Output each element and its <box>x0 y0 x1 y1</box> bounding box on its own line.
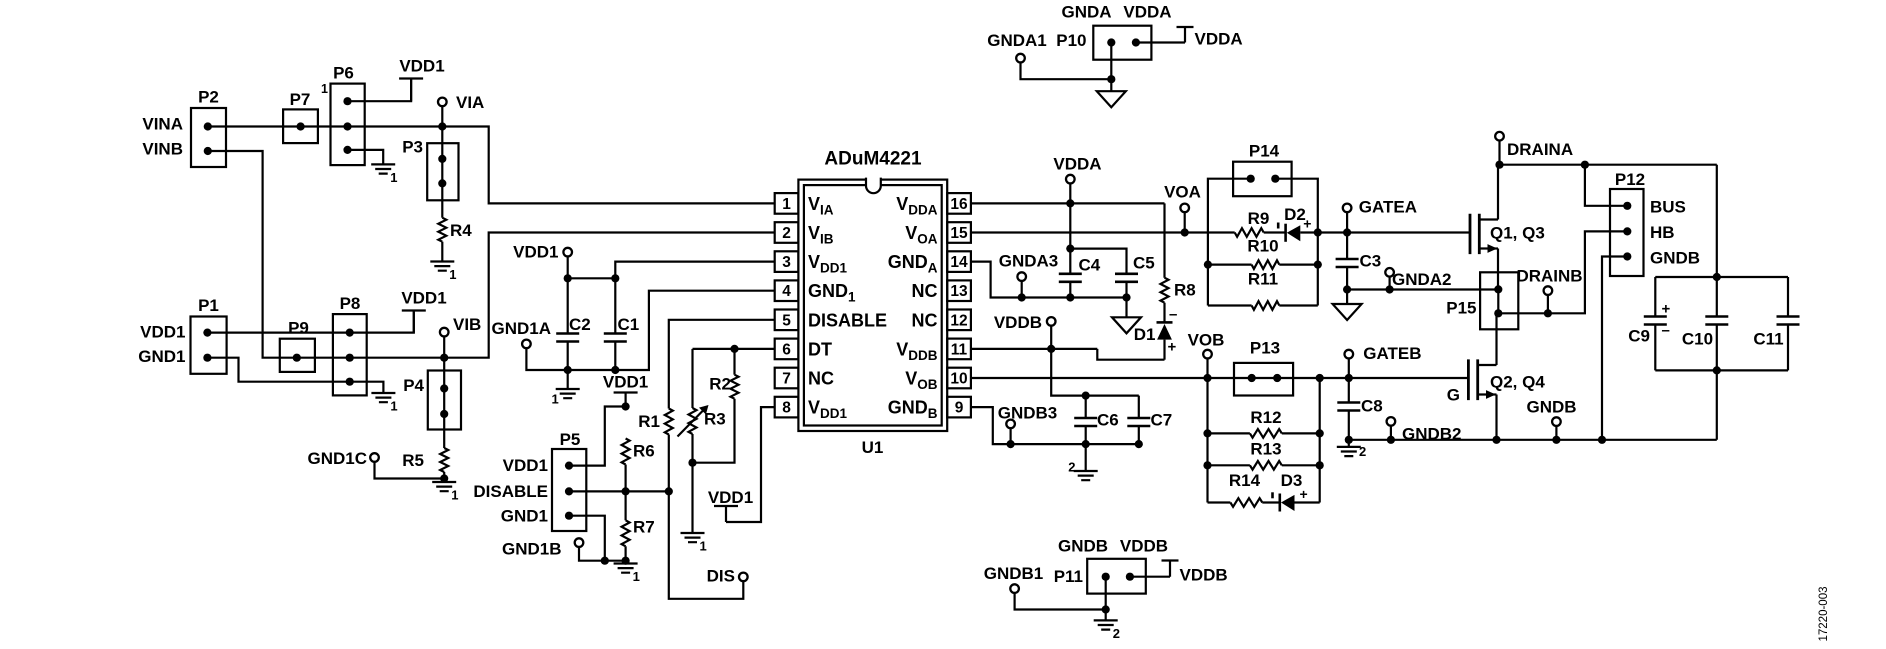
svg-text:1: 1 <box>782 196 791 213</box>
wire R1 to DISABLE junction <box>668 435 670 492</box>
svg-text:C2: C2 <box>569 315 591 334</box>
svg-text:1: 1 <box>633 569 640 584</box>
wire VIA to P3 <box>441 127 443 159</box>
wire P14 left leg <box>1208 179 1251 306</box>
P14 pin 1 <box>1247 175 1255 183</box>
ground 2 below C6 <box>1074 471 1098 480</box>
node GNDA3 terminal <box>1017 272 1026 281</box>
wire GND1 from P1 to P8 pin3 <box>207 358 349 382</box>
P13 pin 2 <box>1273 374 1281 382</box>
node GNDB2 terminal <box>1387 417 1396 426</box>
power VDDA at P10 <box>1136 27 1194 43</box>
header P15 <box>1480 272 1518 329</box>
svg-text:VOA: VOA <box>1164 183 1201 202</box>
wire VDDB terminal stub <box>1050 326 1052 349</box>
svg-text:5: 5 <box>782 312 791 329</box>
svg-text:GNDA2: GNDA2 <box>1392 270 1452 289</box>
P10 pin 1 <box>1107 38 1115 46</box>
header P10 <box>1093 26 1151 60</box>
svg-text:VDDB: VDDB <box>1180 566 1228 585</box>
ground 1 right of P8 <box>371 393 395 402</box>
junction R12 left <box>1203 429 1211 437</box>
svg-text:VDDA: VDDA <box>1123 3 1171 22</box>
junction C6 top <box>1082 392 1090 400</box>
svg-text:1: 1 <box>321 82 328 96</box>
wire P11 ground stub <box>1105 610 1107 621</box>
wire C2 ground stub <box>567 370 569 389</box>
capacitor C3 plates <box>1336 259 1359 267</box>
capacitor C4 plates <box>1059 274 1082 282</box>
header P3 <box>427 143 458 200</box>
P6 pin 3 <box>343 146 351 154</box>
junction VIB on net <box>440 354 448 362</box>
svg-text:16: 16 <box>950 196 968 213</box>
wire R5 to ground <box>443 472 445 479</box>
svg-text:VDD1: VDD1 <box>513 243 558 262</box>
U1 pin 12 box <box>947 310 971 331</box>
junction cap bank bottom <box>1713 366 1721 374</box>
resistor R7 <box>622 520 630 546</box>
svg-text:R5: R5 <box>402 451 424 470</box>
wire VDDB net from U1 pin 11 <box>971 348 1097 350</box>
node VIA terminal <box>438 98 447 107</box>
svg-text:C6: C6 <box>1097 411 1119 430</box>
wire VDD1 to P5 pin1 <box>569 407 626 466</box>
svg-text:Q1, Q3: Q1, Q3 <box>1490 224 1545 243</box>
potentiometer R3 body <box>689 408 697 434</box>
svg-text:C8: C8 <box>1361 397 1383 416</box>
svg-text:P15: P15 <box>1446 299 1476 318</box>
capacitor C9 plates <box>1644 317 1667 325</box>
svg-text:NC: NC <box>912 310 938 330</box>
svg-text:P3: P3 <box>402 138 423 157</box>
resistor R4 <box>438 218 446 242</box>
P5 pin 1 <box>565 462 573 470</box>
wire GNDA2 stub <box>1388 277 1390 290</box>
header P2 <box>191 108 226 167</box>
junction R2/R3 bottom <box>688 459 696 467</box>
wire ground row to R7 bottom <box>605 560 626 562</box>
wire VDD1 rail to U1 pin 3 <box>568 262 775 279</box>
capacitor C7 <box>1138 396 1140 445</box>
svg-text:P10: P10 <box>1056 31 1086 50</box>
svg-text:C11: C11 <box>1753 330 1783 349</box>
svg-text:–: – <box>1662 322 1670 339</box>
P6 pin 2 <box>343 122 351 130</box>
junction BUS on rail <box>1581 161 1589 169</box>
wire VDDB to C6/C7 rail <box>1051 349 1139 396</box>
P15 pin 2 <box>1494 309 1502 317</box>
junction C3 bottom <box>1343 285 1351 293</box>
svg-text:P2: P2 <box>198 88 219 107</box>
svg-text:C10: C10 <box>1682 330 1713 349</box>
svg-text:P12: P12 <box>1615 170 1645 189</box>
svg-text:14: 14 <box>950 254 968 271</box>
svg-text:P8: P8 <box>340 294 361 313</box>
svg-text:VDDA: VDDA <box>1195 30 1243 49</box>
junction GNDA1 row <box>1107 75 1115 83</box>
svg-text:NC: NC <box>912 281 938 301</box>
wire P3 internal <box>441 159 443 184</box>
U1 pin 1 box <box>775 193 799 214</box>
svg-text:R2: R2 <box>709 375 731 394</box>
wire VDDA to C4 <box>1069 203 1071 248</box>
junction GNDB terminal <box>1552 436 1560 444</box>
resistor R9 <box>1235 228 1264 237</box>
svg-text:4: 4 <box>782 283 791 300</box>
resistor R1 <box>665 409 673 435</box>
wire U1 pin5 to R1 <box>669 320 775 409</box>
P1 pin 1 <box>203 329 211 337</box>
svg-text:+: + <box>1300 486 1308 502</box>
wire VIB stub <box>443 336 445 357</box>
P12 pin 1 BUS <box>1623 202 1631 210</box>
resistor R10 <box>1252 260 1280 269</box>
svg-text:11: 11 <box>951 341 968 358</box>
capacitor C2 <box>567 278 569 370</box>
svg-text:1: 1 <box>449 267 456 282</box>
svg-text:GND1: GND1 <box>501 507 548 526</box>
svg-text:VDD1: VDD1 <box>401 289 446 308</box>
junction DT at R2 <box>730 345 738 353</box>
wire U1 pin14 to GNDA rail <box>971 262 1127 298</box>
svg-text:DIS: DIS <box>707 567 735 586</box>
junction VOB <box>1203 374 1211 382</box>
node GNDB1 terminal <box>1010 584 1019 593</box>
wire VDDA net from U1 pin 16 <box>971 202 1165 204</box>
svg-text:1: 1 <box>551 392 558 407</box>
wire R8 to D1 <box>1163 303 1165 323</box>
svg-text:P6: P6 <box>333 64 354 83</box>
svg-text:2: 2 <box>1068 460 1075 475</box>
capacitor C11 plates <box>1777 317 1800 325</box>
wire C3 to analog ground <box>1346 290 1348 305</box>
svg-text:R9: R9 <box>1248 209 1270 228</box>
svg-text:P7: P7 <box>290 90 311 109</box>
header P9 <box>280 339 315 372</box>
wire cap bank bottom rail <box>1655 369 1788 371</box>
wire GATEA stub <box>1346 212 1348 232</box>
header P11 <box>1087 559 1146 594</box>
svg-text:VDD1: VDD1 <box>503 456 548 475</box>
wire DRAINA bus rail <box>1500 164 1717 166</box>
node VDDA terminal <box>1066 175 1075 184</box>
svg-text:BUS: BUS <box>1650 198 1686 217</box>
svg-text:R12: R12 <box>1250 408 1281 427</box>
svg-text:GNDB3: GNDB3 <box>998 404 1058 423</box>
svg-text:R13: R13 <box>1250 440 1281 459</box>
wire B left leg <box>1206 378 1208 503</box>
svg-text:GNDB: GNDB <box>1650 249 1700 268</box>
svg-text:P9: P9 <box>288 319 309 338</box>
P3 pin 1 <box>438 155 446 163</box>
junction GNDB2 <box>1387 436 1395 444</box>
junction R12 right <box>1316 429 1324 437</box>
wire B right leg <box>1319 378 1321 503</box>
svg-text:R4: R4 <box>450 221 472 240</box>
wire P15 to HB net <box>1498 231 1627 313</box>
wire GNDB row to cap bank <box>1349 439 1717 441</box>
junction ground rail at C2 <box>564 366 572 374</box>
capacitor C7 plates <box>1127 418 1150 426</box>
ground 1 below R4 <box>430 262 454 271</box>
wire P4 to R5 <box>443 414 445 448</box>
junction GNDB3 on rail <box>1007 440 1015 448</box>
op-amp U1 ADuM4221 body <box>798 180 947 431</box>
capacitor C8 <box>1348 378 1350 440</box>
wire DRAINB stub <box>1547 295 1549 313</box>
svg-text:G: G <box>1447 386 1460 405</box>
wire R10 row <box>1208 264 1318 266</box>
capacitor C6 plates <box>1074 418 1097 426</box>
header P8 <box>333 314 367 395</box>
P5 pin 2 <box>565 487 573 495</box>
junction P12 GNDB on row <box>1598 436 1606 444</box>
svg-text:DRAINA: DRAINA <box>1507 140 1573 159</box>
wire P3 to R4 <box>441 183 443 217</box>
resistor R6 <box>622 439 630 465</box>
svg-text:VIA: VIA <box>456 93 484 112</box>
junction right leg top <box>1316 374 1324 382</box>
P10 pin 2 <box>1132 38 1140 46</box>
U1 pin 2 box <box>775 222 799 243</box>
svg-text:DT: DT <box>808 339 832 359</box>
junction VDD1 rail at C1 <box>611 274 619 282</box>
wire Q1 drain <box>1497 165 1499 220</box>
wire R7 to ground row <box>624 546 626 560</box>
ground 2 below C8 <box>1337 447 1361 456</box>
node GND1A terminal <box>522 340 531 349</box>
wire P11 pin1 leg <box>1105 577 1107 610</box>
ground 1 at P6 <box>371 164 395 173</box>
wire R12 row <box>1208 432 1320 434</box>
svg-text:GNDA3: GNDA3 <box>999 252 1059 271</box>
wire R4 to ground <box>441 242 443 262</box>
wire P10 ground stub <box>1110 79 1112 91</box>
U1 pin 10 box <box>947 368 971 389</box>
diode D2 with indicator <box>1284 224 1287 242</box>
svg-text:HB: HB <box>1650 223 1675 242</box>
junction DISABLE at R6/R7 <box>622 487 630 495</box>
U1 pin 3 box <box>775 251 799 272</box>
node VOB terminal <box>1203 350 1212 359</box>
U1 pin 4 box <box>775 280 799 301</box>
wire VOB net from U1 pin 10 <box>971 377 1469 379</box>
wire VDD1 row P1-P8 <box>207 311 413 333</box>
svg-text:U1: U1 <box>862 438 884 457</box>
wire P12 GNDB leg <box>1602 257 1627 440</box>
node GNDA1 terminal <box>1016 54 1025 63</box>
power VDD1 at U1 pin8 <box>714 506 738 522</box>
wire Q2 source to GNDB <box>1495 395 1497 440</box>
P14 pin 2 <box>1271 175 1279 183</box>
wire P5 pin3 to ground row <box>569 516 605 561</box>
wire P8 pin3 to ground <box>350 382 384 393</box>
svg-text:C9: C9 <box>1628 327 1650 346</box>
svg-text:NC: NC <box>808 369 834 389</box>
svg-text:R7: R7 <box>633 518 655 537</box>
junction C4/C5 top <box>1066 245 1074 253</box>
svg-text:P14: P14 <box>1249 142 1280 161</box>
wire DISABLE to DIS terminal <box>669 491 744 598</box>
svg-text:13: 13 <box>950 283 968 300</box>
node GND1B terminal <box>575 538 584 547</box>
capacitor C10 on rail <box>1716 277 1718 370</box>
P15 pin 1 <box>1494 285 1502 293</box>
wire R14 row left <box>1208 501 1231 503</box>
wire R2 bottom link <box>693 399 735 463</box>
node GNDB3 terminal <box>1006 420 1015 429</box>
svg-text:6: 6 <box>782 341 791 358</box>
ground 2 below P11 <box>1094 620 1118 629</box>
ground GNDA below C3 <box>1333 304 1362 320</box>
P4 pin 2 <box>440 410 448 418</box>
svg-text:R1: R1 <box>638 412 660 431</box>
wire R8 from VDDA row <box>1163 203 1165 277</box>
svg-text:VDDA: VDDA <box>1053 155 1101 174</box>
wire R13 row <box>1208 464 1320 466</box>
svg-text:VDD1: VDD1 <box>708 488 753 507</box>
wire VDDA terminal stub <box>1069 183 1071 203</box>
header P6 <box>331 84 365 166</box>
junction GATEB <box>1345 374 1353 382</box>
header P13 <box>1234 363 1293 396</box>
power VDD1 above R6 <box>614 393 638 407</box>
U1 pin 15 box <box>947 222 971 243</box>
junction VIA on VINA net <box>438 122 446 130</box>
svg-text:VDD1: VDD1 <box>603 373 648 392</box>
svg-text:–: – <box>1169 306 1177 323</box>
svg-text:C4: C4 <box>1079 256 1101 275</box>
wire P4 internal <box>443 389 445 415</box>
ground 1 below C2 <box>556 389 580 398</box>
P12 pin 3 GNDB <box>1623 252 1631 260</box>
header P5 <box>552 449 586 531</box>
svg-text:VIB: VIB <box>453 315 481 334</box>
ground 1 below R5 <box>432 482 456 491</box>
junction VDD1 rail at C2 <box>564 274 572 282</box>
svg-text:VDDB: VDDB <box>1120 537 1168 556</box>
ground 1 below R3 <box>681 533 705 542</box>
junction C5 bottom <box>1122 293 1130 301</box>
wire C5 to analog ground <box>1125 298 1127 318</box>
power VDD1 at P6 <box>399 79 423 102</box>
svg-text:GATEA: GATEA <box>1359 198 1417 217</box>
node GATEA terminal <box>1343 204 1352 213</box>
wire VDD1 to U1 pin 8 <box>726 407 775 522</box>
junction C4 bottom <box>1066 293 1074 301</box>
node VDDB terminal <box>1047 317 1056 326</box>
ground 1 below R7 <box>614 564 638 573</box>
capacitor C2 plates <box>556 334 579 342</box>
U1 pin 9 box <box>947 397 971 418</box>
P3 pin 2 <box>438 179 446 187</box>
wire GNDA1 to P10 pin1 <box>1021 62 1112 79</box>
resistor R11 <box>1252 301 1280 310</box>
svg-text:DISABLE: DISABLE <box>808 310 887 330</box>
wire U1 pin9 to GNDB rail <box>971 407 1139 444</box>
header P14 <box>1233 162 1292 197</box>
svg-text:Q2, Q4: Q2, Q4 <box>1490 373 1545 392</box>
wire VINB net to U1 pin 2 <box>208 151 775 358</box>
P9 pin <box>293 354 301 362</box>
wire GNDB terminal stub <box>1555 426 1557 440</box>
wire VOA terminal stub <box>1184 212 1186 232</box>
junction DISABLE at R1 <box>665 487 673 495</box>
svg-text:R3: R3 <box>704 410 726 429</box>
wire P14 right leg <box>1275 179 1318 306</box>
svg-text:GND1C: GND1C <box>307 449 367 468</box>
svg-text:1: 1 <box>390 399 397 414</box>
wire GNDB1 to P11 pin1 <box>1015 593 1106 610</box>
svg-text:R8: R8 <box>1174 281 1196 300</box>
P4 pin 1 <box>440 384 448 392</box>
junction DRAINB <box>1544 309 1552 317</box>
wire U1 pin6 DT row <box>693 348 775 350</box>
U1 pin 5 box <box>775 310 799 331</box>
junction C8 bottom <box>1345 436 1353 444</box>
P2 pin 2 <box>204 147 212 155</box>
wire GATEB stub <box>1348 358 1350 378</box>
header P12 <box>1610 189 1644 276</box>
svg-text:15: 15 <box>950 225 968 242</box>
capacitor C1 <box>614 278 616 370</box>
wire Q2 drain to P15 <box>1495 313 1497 365</box>
junction cap bank top <box>1713 273 1721 281</box>
junction VDDB row <box>1047 345 1055 353</box>
svg-text:VOB: VOB <box>1188 331 1225 350</box>
capacitor C11 <box>1787 277 1789 370</box>
node GNDB terminal <box>1552 417 1561 426</box>
svg-text:GNDA1: GNDA1 <box>987 31 1047 50</box>
svg-text:VINB: VINB <box>142 139 183 158</box>
svg-text:17220-003: 17220-003 <box>1818 587 1830 642</box>
U1 pin 13 box <box>947 280 971 301</box>
wire P6 pin3 to ground <box>348 150 384 165</box>
P5 pin 3 <box>565 512 573 520</box>
diode D3 with indicator <box>1279 494 1282 512</box>
P8 pin 2 <box>346 354 354 362</box>
svg-text:10: 10 <box>950 371 967 388</box>
wire GATEA row <box>1318 231 1470 233</box>
svg-text:P4: P4 <box>403 376 424 395</box>
node VOA terminal <box>1180 204 1189 213</box>
ground GNDA below P10 <box>1097 91 1126 107</box>
U1 pin 7 box <box>775 368 799 389</box>
wire VIB junction to P4 <box>443 358 445 389</box>
header P1 <box>191 317 227 374</box>
node VDD1 terminal <box>563 248 572 257</box>
P7 pin <box>297 122 305 130</box>
wire R6 bottom to DISABLE row <box>624 465 626 492</box>
P1 pin 2 <box>203 354 211 362</box>
junction GND1B row at P5 leg <box>601 557 609 565</box>
P11 pin 2 <box>1126 573 1134 581</box>
wire GNDB2 stub <box>1390 426 1392 440</box>
svg-text:7: 7 <box>782 371 791 388</box>
svg-text:VDDB: VDDB <box>994 313 1042 332</box>
svg-text:GNDB2: GNDB2 <box>1402 425 1462 444</box>
junction DRAINA <box>1495 161 1503 169</box>
svg-text:GND1: GND1 <box>138 347 185 366</box>
svg-text:P1: P1 <box>198 296 219 315</box>
P8 pin 1 <box>346 329 354 337</box>
wire GNDA3 stub <box>1021 281 1023 298</box>
capacitor C10 plates <box>1705 317 1728 325</box>
wire P6 pin1 to VDD1 <box>348 79 412 102</box>
junction D2 output on right leg <box>1314 228 1322 236</box>
svg-text:12: 12 <box>950 312 967 329</box>
